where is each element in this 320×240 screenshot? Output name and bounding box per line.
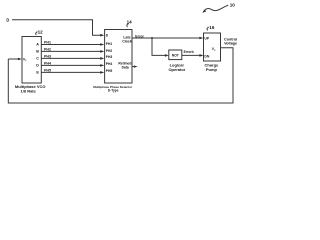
arrowhead into UP	[199, 37, 203, 40]
arrowhead into detector D pin	[100, 34, 104, 37]
arrowhead PH4	[100, 64, 104, 67]
svg-text:DN: DN	[204, 55, 209, 59]
svg-text:Operator: Operator	[168, 67, 185, 72]
ref numeral 14 leader hook	[127, 24, 129, 27]
arrowhead into NOT	[165, 54, 169, 57]
wire PH1	[41, 44, 101, 46]
svg-text:PH4: PH4	[44, 62, 51, 66]
svg-text:14: 14	[127, 19, 133, 24]
wire data input to detector D pin	[12, 20, 101, 35]
svg-text:1/8 Rate: 1/8 Rate	[21, 89, 37, 94]
arrowhead PH2	[100, 50, 104, 53]
svg-text:Clock: Clock	[122, 39, 132, 43]
svg-text:Voltage: Voltage	[224, 42, 237, 46]
wire PH4	[41, 64, 101, 66]
svg-text:PH1: PH1	[106, 42, 113, 46]
arrowhead PH5	[100, 71, 104, 74]
ref numeral 16 leader hook	[207, 27, 209, 30]
svg-text:C: C	[36, 56, 39, 60]
svg-text:Control: Control	[224, 37, 237, 41]
svg-text:PH4: PH4	[106, 62, 113, 66]
wire charge pump output feedback loop	[8, 48, 233, 103]
svg-text:D: D	[6, 17, 9, 22]
node junction error branch	[151, 37, 153, 39]
svg-text:A: A	[36, 42, 39, 46]
arrowhead PH3	[100, 57, 104, 60]
svg-text:UP: UP	[204, 37, 209, 41]
svg-text:PH5: PH5	[106, 69, 113, 73]
wire NOT output to charge pump DN	[182, 54, 200, 56]
svg-text:D-Type: D-Type	[108, 89, 119, 93]
arrowhead retimed data output	[134, 65, 138, 67]
arrowhead into DN	[199, 54, 203, 57]
wire error to charge pump UP	[132, 37, 200, 39]
svg-text:PH2: PH2	[106, 49, 113, 53]
svg-text:Errorb: Errorb	[184, 50, 194, 54]
svg-text:16: 16	[209, 25, 215, 30]
wire PH2	[41, 50, 101, 52]
svg-text:Pump: Pump	[206, 67, 218, 72]
block Charge Pump	[204, 33, 221, 61]
block Multiphase Phase Detector D-Type	[105, 30, 132, 84]
ref numeral 12 leader hook	[36, 32, 38, 35]
svg-text:D: D	[36, 63, 39, 67]
svg-text:10: 10	[230, 2, 236, 7]
arrowhead PH1	[100, 43, 104, 46]
svg-text:Data: Data	[122, 65, 129, 69]
wire retimed data output	[132, 66, 135, 68]
wire PH3	[41, 57, 101, 59]
svg-text:NOT: NOT	[172, 54, 180, 58]
wire control voltage into VCO	[8, 58, 18, 60]
svg-text:PH2: PH2	[44, 48, 51, 52]
svg-text:B: B	[36, 49, 39, 53]
block VCO (Multiphase VCO 1/8 Rate)	[22, 37, 41, 84]
arrowhead into VCO Vc	[18, 58, 22, 61]
svg-text:PH3: PH3	[44, 55, 51, 59]
gate NOT (logical operator)	[169, 50, 182, 60]
svg-text:PH1: PH1	[44, 41, 51, 45]
svg-text:PH5: PH5	[44, 69, 51, 73]
svg-text:PH3: PH3	[106, 55, 113, 59]
svg-text:12: 12	[38, 29, 44, 34]
arrowhead of squiggle	[202, 10, 206, 13]
wire error branch to NOT	[152, 38, 166, 55]
ref numeral 10 leader squiggle	[203, 5, 228, 12]
wire PH5	[41, 71, 101, 73]
